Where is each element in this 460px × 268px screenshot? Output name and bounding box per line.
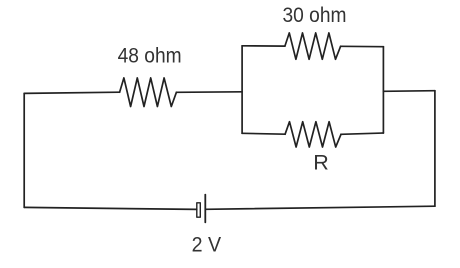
svg-text:48 ohm: 48 ohm: [118, 44, 182, 67]
svg-text:2 V: 2 V: [192, 234, 222, 257]
wire parallel box left vertical: [241, 46, 243, 134]
wire box top-right segment: [341, 45, 384, 47]
wire resistor to parallel box: [176, 91, 242, 94]
label 48 ohm: [118, 44, 182, 67]
wire battery to bottom-right: [205, 206, 435, 209]
wire parallel box right vertical: [382, 47, 384, 133]
svg-text:R: R: [313, 150, 329, 174]
resistor R: [285, 122, 341, 147]
label R: [313, 150, 329, 174]
wire box top-left segment: [242, 45, 285, 47]
wire top-left horizontal: [24, 92, 119, 93]
battery 2V positive plate: [204, 195, 206, 223]
label 2 V: [192, 234, 222, 257]
svg-text:30 ohm: 30 ohm: [283, 4, 347, 27]
resistor 48 ohm: [120, 78, 177, 107]
wire left vertical: [23, 93, 25, 207]
wire right vertical: [434, 91, 436, 207]
wire bottom-left to battery: [24, 207, 197, 209]
wire box bottom-left segment: [242, 132, 285, 135]
wire mid-right horizontal: [383, 90, 435, 93]
label 30 ohm: [283, 4, 347, 27]
resistor 30 ohm: [285, 33, 341, 59]
wire box bottom-right segment: [341, 133, 383, 134]
battery 2V negative plate: [197, 203, 201, 217]
